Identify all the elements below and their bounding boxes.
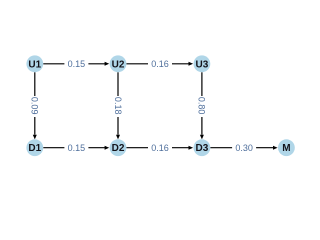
wire U2->D2 <box>116 72 120 139</box>
node D1 <box>26 139 43 156</box>
wire D1->D2 <box>43 146 109 150</box>
node U2 <box>110 55 127 72</box>
wire U1->D1 <box>33 72 37 139</box>
svg-text:0.15: 0.15 <box>68 143 86 153</box>
edge label 0.18 (U2-D2) <box>112 96 125 117</box>
edge label 0.15 (U1-U2) <box>64 57 88 70</box>
node D3 <box>194 139 211 156</box>
svg-text:U3: U3 <box>196 59 209 70</box>
node M <box>278 139 295 156</box>
wire U1->U2 <box>43 62 109 66</box>
svg-text:0.09: 0.09 <box>30 97 40 115</box>
node U3 <box>194 55 211 72</box>
svg-text:M: M <box>282 143 290 154</box>
node D2 <box>110 139 127 156</box>
svg-text:0.15: 0.15 <box>68 59 86 69</box>
edge label 0.80 (U3-D3) <box>195 96 208 117</box>
wire D3->M <box>210 146 277 150</box>
svg-text:0.16: 0.16 <box>151 143 169 153</box>
svg-text:0.16: 0.16 <box>151 59 169 69</box>
edge label 0.16 (U2-U3) <box>148 57 172 70</box>
svg-text:D2: D2 <box>112 143 125 154</box>
edge label 0.30 (D3-M) <box>232 141 256 154</box>
wire U2->U3 <box>126 62 193 66</box>
svg-text:0.80: 0.80 <box>197 97 207 115</box>
svg-text:0.30: 0.30 <box>235 143 253 153</box>
svg-text:U2: U2 <box>112 59 125 70</box>
node U1 <box>26 55 43 72</box>
wire U3->D3 <box>200 72 204 139</box>
svg-text:U1: U1 <box>28 59 41 70</box>
svg-text:D1: D1 <box>28 143 41 154</box>
svg-text:0.18: 0.18 <box>113 97 123 115</box>
edge label 0.16 (D2-D3) <box>148 141 172 154</box>
wire D2->D3 <box>126 146 193 150</box>
edge label 0.15 (D1-D2) <box>64 141 88 154</box>
edge label 0.09 (U1-D1) <box>28 96 41 117</box>
svg-text:D3: D3 <box>196 143 209 154</box>
